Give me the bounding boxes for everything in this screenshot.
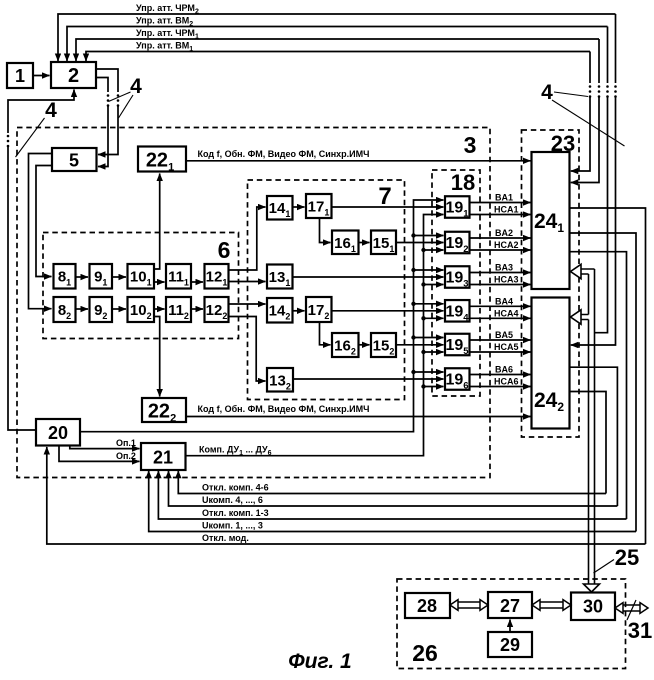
wire bottom Uкомп. 1, ..., 3	[149, 471, 636, 532]
wire BA6	[470, 374, 531, 376]
svg-text:4: 4	[541, 81, 553, 104]
svg-text:7: 7	[378, 183, 391, 210]
block 19_4	[445, 300, 470, 322]
bus 28-27	[458, 602, 480, 608]
svg-text:29: 29	[500, 635, 520, 655]
block 24_2	[532, 298, 570, 429]
block 9_2	[90, 297, 113, 322]
svg-text:Откл. комп. 4-6: Откл. комп. 4-6	[202, 483, 269, 493]
svg-text:Код f, Обн. ФМ, Видео ФМ, Синх: Код f, Обн. ФМ, Видео ФМ, Синхр.ИМЧ	[198, 149, 370, 159]
block 16_2	[332, 333, 359, 357]
wire BA3	[470, 272, 531, 274]
svg-text:21: 21	[153, 448, 173, 468]
bus 27-30	[540, 602, 563, 608]
wire riser ChRM2 right	[615, 14, 617, 83]
dashed group 18	[432, 170, 480, 396]
wire busA tap 19_4	[411, 302, 415, 306]
wire Upr.att.VM1	[86, 52, 590, 62]
wire 24_2 out y367	[570, 367, 618, 506]
block 17_1	[306, 194, 332, 218]
wire 5-8_2	[29, 154, 53, 309]
wire busA tap 19_3	[411, 268, 415, 272]
wire HCA2	[470, 249, 531, 251]
svg-text:HCA5: HCA5	[494, 342, 519, 352]
block 19_2	[445, 232, 470, 254]
block 16_1	[332, 231, 359, 255]
svg-text:4: 4	[130, 75, 142, 98]
wire 14_1-17_1	[293, 206, 305, 208]
svg-text:31: 31	[628, 618, 652, 643]
svg-text:BA2: BA2	[495, 228, 513, 238]
wire 10_2-11_2	[154, 308, 165, 310]
wire BA2	[470, 237, 531, 239]
wire 29-27	[509, 620, 511, 633]
block 2	[51, 62, 96, 88]
svg-text:Uкомп. 4, ..., 6: Uкомп. 4, ..., 6	[202, 495, 263, 505]
wire 10_1-11_1	[154, 281, 165, 283]
svg-text:BA3: BA3	[495, 263, 513, 273]
wire 9_2-10_2	[112, 308, 126, 310]
block 27	[488, 592, 532, 618]
block 19_5	[445, 334, 470, 356]
svg-text:2: 2	[68, 65, 79, 87]
svg-text:BA6: BA6	[495, 365, 513, 375]
block 13_1	[267, 265, 293, 289]
block 10_2	[128, 297, 155, 322]
svg-text:Фиг. 1: Фиг. 1	[288, 650, 352, 673]
block 15_1	[371, 231, 396, 255]
block 19_1	[445, 196, 470, 218]
wire BA5	[470, 339, 531, 341]
wire busB tap 19_5	[421, 350, 425, 354]
wire kodf 22_2 to 24_2	[186, 416, 531, 418]
wire bus 21-19 bottoms	[186, 215, 444, 456]
wire 12_1-14_1	[229, 207, 266, 270]
wire kodf 22_1 to 24_1	[186, 160, 531, 162]
block 28	[405, 593, 450, 618]
wire 16_2-15_2	[359, 344, 370, 346]
wire busB tap 19_2	[421, 248, 425, 252]
block 24_1	[532, 152, 570, 289]
svg-text:30: 30	[583, 597, 603, 617]
svg-text:Откл. мод.: Откл. мод.	[202, 533, 249, 543]
svg-text:HCA2: HCA2	[494, 240, 519, 250]
wire 15_1-19_2	[396, 242, 444, 244]
wire 8_1-9_1	[76, 276, 89, 278]
wire 16_1-15_1	[359, 242, 370, 244]
block 12_1	[205, 264, 229, 289]
wire 17_1-16_1	[320, 218, 331, 243]
block 21	[141, 443, 186, 470]
block 17_2	[306, 297, 332, 322]
wire HCA3	[470, 284, 531, 286]
wire bottom Откл. мод.	[47, 447, 646, 544]
dashed group 26	[397, 579, 626, 669]
wire bottom Откл. комп. 4-6	[178, 471, 606, 494]
svg-text:BA1: BA1	[495, 193, 513, 203]
block 13_2	[267, 368, 293, 392]
wire 11_1-12_1	[191, 281, 203, 283]
dashed group 6	[43, 233, 239, 339]
wire busB tap 19_6	[421, 384, 425, 388]
wire busB tap 19_4	[421, 316, 425, 320]
svg-text:Uкомп. 1, ..., 3: Uкомп. 1, ..., 3	[202, 521, 263, 531]
svg-text:26: 26	[412, 640, 438, 666]
wire 17_2-19_4	[332, 310, 444, 312]
wire 14_2-17_2	[293, 310, 305, 312]
wire busA tap 19_5	[411, 335, 415, 339]
block 8_2	[54, 297, 76, 322]
wire riser VM2 right (jog to bus)	[607, 27, 609, 84]
wire 13_2-19_6	[293, 378, 444, 380]
svg-text:1: 1	[15, 66, 25, 86]
block 19_3	[445, 266, 470, 288]
svg-text:HCA3: HCA3	[494, 275, 519, 285]
wire Upr.att.ChRM1	[76, 39, 599, 61]
wire 24_1 out y251.7	[570, 252, 627, 519]
svg-text:BA5: BA5	[495, 330, 513, 340]
block 14_1	[267, 196, 293, 220]
block 5	[52, 148, 97, 171]
wire 11_2-12_2	[191, 308, 203, 310]
svg-text:Оп.1: Оп.1	[116, 438, 136, 448]
wire HCA6	[470, 386, 531, 388]
svg-text:Оп.2: Оп.2	[116, 451, 136, 461]
svg-text:HCA6: HCA6	[494, 377, 519, 387]
wire 24_2 out y391	[570, 392, 607, 494]
block 20	[36, 419, 80, 446]
wire busB tap 19_3	[421, 282, 425, 286]
wire 20-21 Op1	[70, 446, 140, 449]
wire 10_1-22_1	[154, 174, 160, 270]
block 11_2	[166, 297, 191, 322]
wire 2-5 lower	[96, 78, 108, 93]
wire BA4	[470, 305, 531, 307]
svg-text:25: 25	[615, 545, 639, 570]
svg-text:HCA4: HCA4	[494, 308, 519, 318]
wire 20-21 Op2	[59, 446, 140, 462]
svg-text:BA4: BA4	[495, 296, 513, 306]
wire riser VM1 right	[589, 52, 591, 84]
wire Upr.att.ChRM2	[58, 14, 616, 61]
svg-text:27: 27	[500, 596, 520, 616]
wire 20-2 left feedback	[8, 147, 36, 430]
wire bottom Откл. комп. 1-3	[158, 471, 626, 519]
wire HCA1	[470, 214, 531, 216]
block 12_2	[205, 297, 229, 322]
svg-text:3: 3	[464, 132, 477, 158]
wire BA1	[470, 202, 531, 204]
dashed group 3	[17, 128, 490, 478]
wire 10_2-22_2	[154, 317, 160, 397]
wire busA tap 19_6	[411, 370, 415, 374]
svg-text:28: 28	[417, 596, 437, 616]
wire 13_1-19_3	[293, 276, 444, 278]
wire 1-2	[33, 75, 50, 77]
wire 12_2-13_2	[229, 317, 266, 382]
dashed group 23	[522, 130, 580, 437]
wire 9_1-10_1	[112, 276, 126, 278]
block 19_6	[445, 368, 470, 390]
block 10_1	[128, 264, 155, 289]
svg-text:6: 6	[218, 237, 231, 263]
block 1	[7, 63, 33, 88]
wire 8_2-9_2	[76, 308, 89, 310]
wire riser ChRM1 right	[598, 39, 600, 83]
wire bus 20-19 tops	[80, 200, 444, 432]
block 11_1	[166, 264, 191, 289]
block 22_1	[138, 147, 186, 172]
svg-text:18: 18	[451, 170, 475, 195]
svg-text:20: 20	[48, 423, 68, 443]
wire 24_1 out y233	[570, 233, 637, 532]
wire HCA4	[470, 317, 531, 319]
wire bottom Uкомп. 4, ..., 6	[169, 471, 618, 506]
block 30	[571, 593, 615, 621]
svg-text:4: 4	[45, 99, 57, 122]
wire busA tap 19_2	[411, 233, 415, 237]
block 8_1	[54, 264, 76, 289]
bus 30-31	[623, 605, 640, 611]
wire HCA5	[470, 351, 531, 353]
block 29	[488, 632, 532, 657]
hollow bus 25	[581, 269, 595, 274]
wire 5-8_1	[36, 166, 52, 277]
wire 15_2-19_5	[396, 344, 444, 346]
svg-text:HCA1: HCA1	[494, 205, 519, 215]
svg-text:Код f, Обн. ФМ, Видео ФМ, Синх: Код f, Обн. ФМ, Видео ФМ, Синхр.ИМЧ	[198, 404, 370, 414]
block 9_1	[90, 264, 113, 289]
wire 2-5 upper	[96, 69, 118, 92]
block 22_2	[142, 398, 186, 422]
wire 17_2-16_2	[320, 322, 331, 345]
svg-text:Откл. комп. 1-3: Откл. комп. 1-3	[202, 508, 269, 518]
wire 24_1 out y208	[570, 208, 646, 544]
wire 12_1-13_1	[229, 281, 266, 283]
block 14_2	[267, 298, 293, 323]
dashed group 7	[248, 180, 405, 400]
block 15_2	[371, 333, 396, 357]
wire 12_2-14_2	[229, 303, 266, 305]
wire Upr.att.VM2	[67, 27, 608, 62]
wire 17_1-19_1	[332, 206, 444, 208]
svg-text:5: 5	[69, 151, 79, 171]
